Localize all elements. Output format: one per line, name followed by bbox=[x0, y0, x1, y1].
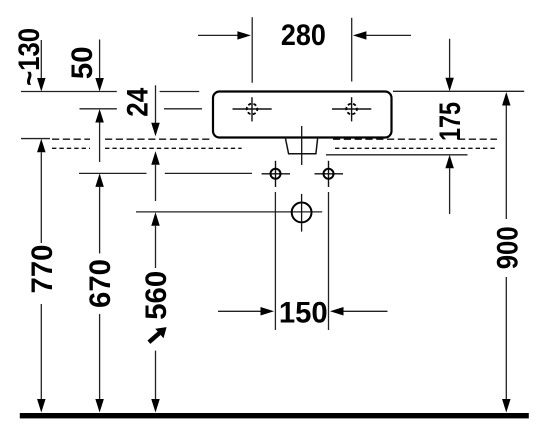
dim ~130 down arrow bbox=[37, 40, 46, 92]
drain outlet centerline bbox=[301, 126, 303, 165]
fixing hole right crosshair bbox=[315, 161, 344, 187]
dim 175 down arrow bbox=[445, 39, 454, 92]
dim 150 left arrow bbox=[218, 307, 274, 316]
fixing hole right circle bbox=[324, 169, 334, 179]
drain outlet trapezoid bbox=[286, 139, 318, 154]
dim 280 left arrow bbox=[198, 31, 251, 39]
dim 150 right arrow bbox=[330, 307, 388, 316]
svg-text:560: 560 bbox=[140, 271, 173, 320]
dim 900 lower shaft and floor arrow bbox=[502, 277, 511, 413]
svg-text:900: 900 bbox=[492, 226, 525, 269]
dim 175 up arrow bbox=[445, 155, 454, 214]
fixing hole left crosshair bbox=[262, 161, 290, 187]
svg-text:24: 24 bbox=[122, 87, 155, 117]
dim 670 up arrow bbox=[95, 173, 104, 253]
dim 50 down arrow bbox=[95, 40, 104, 92]
washbasin body bbox=[213, 92, 392, 138]
dim 50 up arrow bbox=[95, 109, 104, 162]
dim 770 lower shaft and floor arrow bbox=[37, 304, 46, 413]
drain hole vertical centerline bbox=[301, 194, 303, 232]
175 target line bbox=[326, 154, 468, 156]
hidden line B (lower dashed) bbox=[52, 147, 497, 149]
dim 560 up arrow bbox=[151, 212, 160, 268]
rim top extension right bbox=[393, 90, 524, 92]
560 target line bbox=[136, 211, 322, 213]
150 extension line left bbox=[274, 192, 276, 330]
770 target line bbox=[21, 138, 50, 140]
svg-text:280: 280 bbox=[281, 19, 326, 52]
dim 560 lower shaft and floor arrow bbox=[151, 351, 160, 413]
dim 280 right arrow bbox=[353, 31, 411, 39]
faucet hole left dashed circle bbox=[247, 104, 258, 115]
dim 670 lower shaft and floor arrow bbox=[95, 314, 104, 413]
svg-text:150: 150 bbox=[279, 296, 328, 329]
faucet hole left crosshair bbox=[233, 97, 272, 121]
faucet hole right crosshair bbox=[332, 97, 371, 121]
280 extension line right bbox=[351, 18, 353, 82]
dim 560 adjustable arrow symbol bbox=[149, 327, 167, 342]
dim 24 up arrow bbox=[151, 151, 160, 201]
svg-text:670: 670 bbox=[84, 259, 117, 308]
150 extension line right bbox=[328, 192, 330, 330]
faucet level line (50 target) bbox=[80, 108, 203, 110]
floor line bbox=[20, 413, 529, 418]
dim 770 up arrow bbox=[37, 139, 46, 243]
rim top line left bbox=[21, 91, 199, 93]
svg-text:50: 50 bbox=[66, 47, 99, 80]
hidden line A (upper dashed) bbox=[52, 138, 497, 140]
fixing hole left circle bbox=[271, 169, 281, 179]
svg-text:~130: ~130 bbox=[13, 28, 46, 86]
280 extension line left bbox=[251, 17, 253, 83]
drain hole circle bbox=[292, 203, 312, 223]
svg-text:175: 175 bbox=[434, 102, 467, 141]
670 target line bbox=[79, 172, 252, 174]
dim 900 up arrow bbox=[502, 92, 511, 219]
faucet hole right dashed circle bbox=[346, 104, 357, 115]
svg-text:770: 770 bbox=[26, 245, 59, 294]
dim 24 down arrow bbox=[151, 85, 160, 136]
